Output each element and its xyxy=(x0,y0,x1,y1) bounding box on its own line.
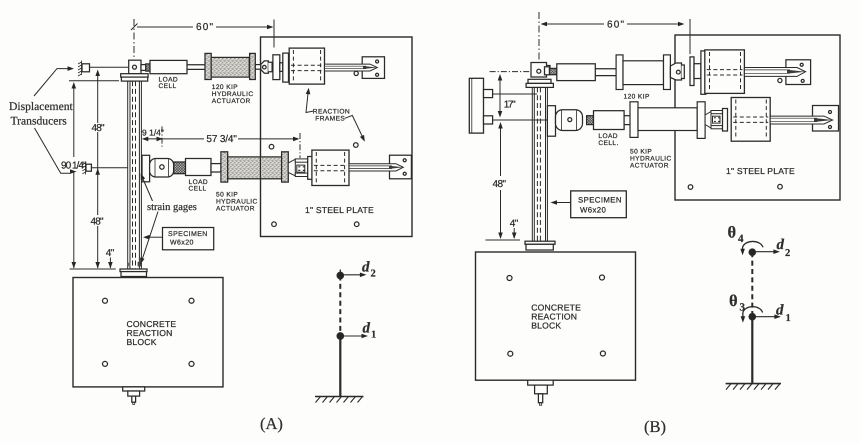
reaction frame B lower xyxy=(731,98,770,142)
svg-text:θ: θ xyxy=(728,223,737,242)
svg-text:90 1/4": 90 1/4" xyxy=(61,161,87,172)
svg-text:CELL: CELL xyxy=(159,83,177,90)
svg-text:θ: θ xyxy=(729,291,738,310)
specimen label box A xyxy=(163,228,214,250)
steel plate B xyxy=(675,35,840,200)
connector + thread B top xyxy=(545,67,550,75)
piston yoke A lower xyxy=(288,159,295,176)
svg-text:60": 60" xyxy=(196,22,213,33)
threaded rod A upper xyxy=(325,64,378,71)
rod xyxy=(211,164,221,172)
spacer discs B top xyxy=(690,57,694,86)
dim 90 1/4 line xyxy=(69,80,119,82)
clevis lower B xyxy=(556,110,583,131)
svg-text:W6x20: W6x20 xyxy=(170,240,194,247)
svg-text:50 KIP: 50 KIP xyxy=(216,192,238,199)
steel plate A xyxy=(261,37,413,237)
schematic A ground xyxy=(315,396,364,398)
reaction frame B top xyxy=(705,50,745,94)
load cell B lower xyxy=(594,111,625,130)
dimension 60in B xyxy=(546,23,680,25)
svg-text:(B): (B) xyxy=(644,417,666,436)
svg-text:(A): (A) xyxy=(260,414,283,433)
threaded rod lower B xyxy=(587,116,594,125)
svg-text:1" STEEL PLATE: 1" STEEL PLATE xyxy=(305,205,374,215)
base plate top B xyxy=(528,79,551,83)
svg-text:2: 2 xyxy=(371,269,376,280)
svg-text:4": 4" xyxy=(106,248,115,259)
svg-text:2: 2 xyxy=(785,248,790,259)
svg-text:57 3/4": 57 3/4" xyxy=(206,134,237,145)
dim 17in B xyxy=(499,77,501,115)
spacer discs A upper xyxy=(273,55,280,80)
dim 4in B xyxy=(513,228,515,238)
load cell B top (coupler) xyxy=(557,64,596,81)
anchor plate B top xyxy=(786,60,811,85)
svg-text:48": 48" xyxy=(493,179,507,190)
svg-text:4: 4 xyxy=(738,233,744,245)
strain gage marks xyxy=(138,262,141,267)
transducer bracket lower A xyxy=(86,164,91,171)
piston yoke B lower xyxy=(705,112,711,129)
strain gages leaders xyxy=(142,176,153,202)
base plate top A xyxy=(121,74,148,77)
svg-text:HYDRAULIC: HYDRAULIC xyxy=(212,91,254,98)
concrete reaction block A xyxy=(73,278,223,387)
connector + threaded block xyxy=(141,65,146,71)
baseline under dims B xyxy=(486,239,521,241)
schematic B column line xyxy=(751,252,753,317)
theta3 arc xyxy=(743,307,763,318)
svg-text:d: d xyxy=(362,260,370,276)
baseline under dims A xyxy=(70,268,116,270)
120 kip actuator A xyxy=(205,53,211,79)
reaction frame A lower xyxy=(312,150,349,185)
centerline A column xyxy=(133,19,135,60)
svg-text:BLOCK: BLOCK xyxy=(127,337,157,347)
svg-text:FRAMES: FRAMES xyxy=(315,116,345,123)
svg-text:1" STEEL PLATE: 1" STEEL PLATE xyxy=(726,166,795,176)
svg-text:d: d xyxy=(363,321,371,337)
threaded rod lower A xyxy=(174,162,186,174)
block anchor bottom A xyxy=(123,387,145,391)
svg-text:LOAD: LOAD xyxy=(598,133,618,140)
threaded rod A lower xyxy=(349,164,403,171)
svg-text:SPECIMEN: SPECIMEN xyxy=(578,196,622,205)
svg-text:CELL: CELL xyxy=(189,186,207,193)
wall plate B xyxy=(469,78,483,133)
svg-text:BLOCK: BLOCK xyxy=(531,321,561,331)
dim 48in B xyxy=(500,124,502,176)
plate A holes xyxy=(269,144,274,149)
svg-text:4": 4" xyxy=(510,219,519,230)
svg-text:W6x20: W6x20 xyxy=(580,206,607,215)
column A (specimen) xyxy=(128,81,142,269)
schematic B ground xyxy=(726,383,781,385)
dim 4in A xyxy=(109,258,111,269)
svg-text:HYDRAULIC: HYDRAULIC xyxy=(216,199,258,206)
load cell A lower xyxy=(186,159,212,176)
svg-text:d: d xyxy=(776,303,784,319)
dim 9 1/4 and 57 3/4 xyxy=(161,126,163,147)
mount plate lower clevis A xyxy=(142,155,150,182)
svg-text:1: 1 xyxy=(786,313,791,324)
leader arrow to lower bracket xyxy=(35,128,71,173)
block anchor bottom B xyxy=(528,380,554,385)
schematic A arrows d2 d1 xyxy=(344,274,361,276)
dim 48 upper line xyxy=(97,72,99,123)
concrete reaction block B xyxy=(476,252,636,380)
transducer bracket upper A xyxy=(82,64,90,72)
clevis top B xyxy=(531,63,547,78)
threaded rod B top xyxy=(744,68,805,77)
svg-text:60": 60" xyxy=(607,20,624,31)
base plate bottom B xyxy=(525,241,555,244)
schematic A column line xyxy=(339,270,341,276)
svg-text:Transducers: Transducers xyxy=(11,115,68,128)
svg-text:48": 48" xyxy=(92,123,105,134)
wire lower transducer A xyxy=(91,167,127,169)
svg-text:1: 1 xyxy=(371,330,376,341)
svg-text:strain gages: strain gages xyxy=(147,202,197,213)
svg-text:SPECIMEN: SPECIMEN xyxy=(168,231,208,238)
50 kip actuator B xyxy=(630,102,638,138)
svg-text:ACTUATOR: ACTUATOR xyxy=(630,163,669,170)
rod B top xyxy=(595,69,616,76)
centerline B column xyxy=(538,12,540,60)
rod xyxy=(624,116,631,125)
svg-text:50 KIP: 50 KIP xyxy=(630,149,652,156)
wire upper transducer A xyxy=(90,66,129,68)
anchor plate A lower xyxy=(390,155,412,179)
svg-text:3: 3 xyxy=(740,302,746,314)
specimen label box B xyxy=(571,191,627,218)
50 kip actuator A xyxy=(221,152,228,182)
base plate bottom A xyxy=(120,269,147,272)
svg-text:ACTUATOR: ACTUATOR xyxy=(216,206,255,213)
piston rod + clevis A upper xyxy=(255,65,260,70)
dimension 60in A xyxy=(137,26,269,28)
theta4 arc xyxy=(743,241,763,250)
load cell A upper xyxy=(150,60,187,73)
svg-text:ACTUATOR: ACTUATOR xyxy=(212,98,251,105)
svg-text:17": 17" xyxy=(504,100,516,111)
piston clevis B top xyxy=(670,63,681,80)
svg-text:CELL.: CELL. xyxy=(598,140,618,147)
120 kip actuator B xyxy=(616,55,623,90)
mount plate lower clevis B xyxy=(547,106,555,137)
column B xyxy=(532,87,547,241)
svg-text:9 1/4": 9 1/4" xyxy=(142,128,164,138)
svg-text:HYDRAULIC: HYDRAULIC xyxy=(630,156,672,163)
transducer wires B xyxy=(493,93,537,95)
clevis top A xyxy=(129,60,141,73)
clevis lower A xyxy=(150,159,174,178)
dashdot pin line B xyxy=(490,71,534,73)
svg-text:120 KIP: 120 KIP xyxy=(624,94,650,101)
svg-text:48": 48" xyxy=(91,217,104,228)
reaction frame A upper xyxy=(289,48,324,84)
svg-text:REACTION: REACTION xyxy=(313,109,350,116)
anchor plate A upper xyxy=(362,57,384,79)
leader arrow to upper bracket xyxy=(34,69,68,96)
schematic B arrows d2 d1 xyxy=(756,251,775,253)
anchor plate B lower xyxy=(813,106,839,132)
threaded rod B lower xyxy=(770,116,832,124)
reaction frames leaders xyxy=(306,92,313,113)
svg-text:d: d xyxy=(777,237,785,253)
svg-text:Displacement: Displacement xyxy=(9,100,74,113)
rod to 120kip actuator xyxy=(187,65,205,70)
